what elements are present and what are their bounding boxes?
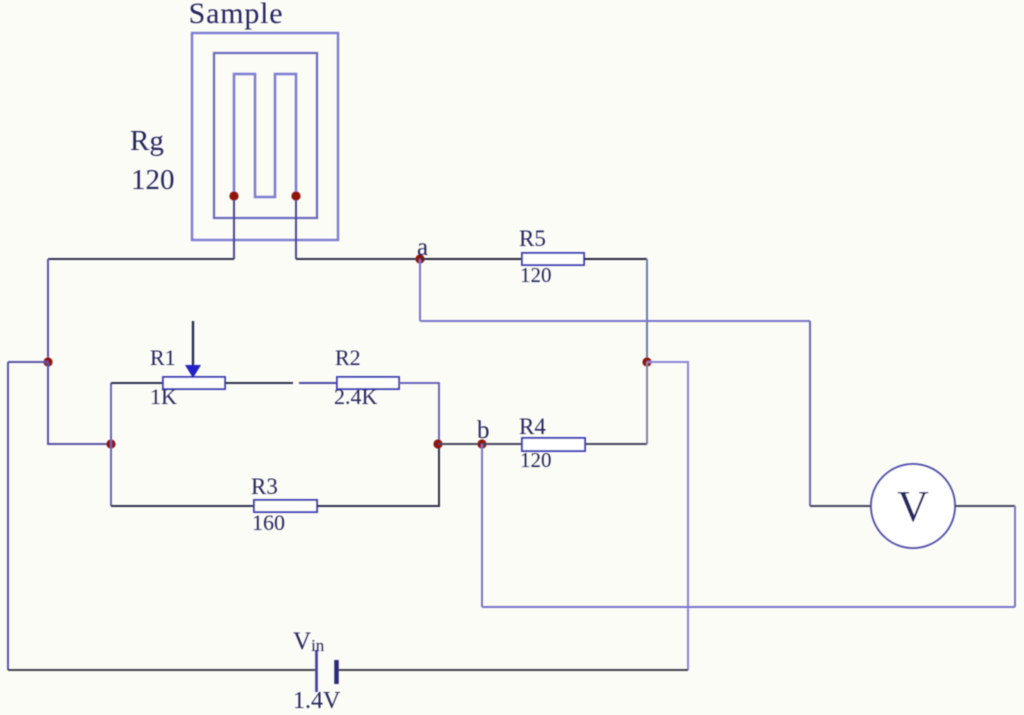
wire voltmeter branch down — [809, 321, 811, 506]
wire bridge right node to node b — [438, 443, 482, 445]
wire far-left rail down to battery — [7, 362, 9, 670]
wire bridge lower-left to R3 — [111, 505, 254, 507]
wire junction down to bridge left node — [48, 362, 111, 444]
svg-text:1K: 1K — [150, 384, 177, 409]
svg-text:120: 120 — [520, 263, 552, 287]
svg-text:Sample: Sample — [189, 0, 284, 30]
wire voltmeter right down — [1014, 506, 1016, 607]
wire to R1 left — [111, 382, 163, 384]
wire R3 right up to bridge right node — [317, 448, 439, 506]
wire junction to far-left rail — [8, 361, 48, 363]
resistor R5 — [522, 253, 584, 265]
wire left rail down to junction — [47, 259, 49, 362]
resistor R3 — [254, 500, 317, 512]
resistor R4 — [522, 438, 585, 451]
wire gauge left terminal down — [233, 200, 235, 259]
wire R1 to R2 — [225, 382, 293, 384]
svg-text:V: V — [897, 482, 929, 531]
node a junction — [415, 254, 424, 263]
strain gauge Rg serpentine — [234, 74, 296, 197]
node b junction — [477, 439, 486, 448]
wire junction to battery riser — [647, 362, 688, 670]
bridge right node junction — [433, 439, 442, 448]
wire gauge left to left rail — [48, 258, 234, 260]
gauge terminal junction left — [229, 191, 238, 200]
wiper arrow head R1 — [185, 365, 201, 378]
battery Vin negative plate — [334, 660, 339, 684]
wire gauge right to node a — [296, 258, 420, 260]
wire node b to R4 — [482, 443, 522, 445]
wire node b down — [481, 444, 483, 607]
resistor R2 — [337, 377, 399, 389]
wire R1 to R2 second segment — [299, 382, 337, 384]
wire R2 right to bridge right vertical — [399, 383, 439, 444]
svg-text:120: 120 — [131, 164, 175, 196]
svg-text:R2: R2 — [335, 345, 361, 370]
bridge left node junction — [106, 439, 115, 448]
svg-text:R3: R3 — [251, 474, 278, 499]
wire R4 right to right rail — [585, 443, 647, 445]
right rail junction — [642, 357, 651, 366]
wiper arrow shaft R1 — [192, 321, 194, 367]
svg-text:a: a — [417, 234, 428, 261]
svg-text:160: 160 — [252, 510, 285, 535]
svg-text:R5: R5 — [519, 226, 546, 251]
battery Vin positive plate — [315, 650, 318, 692]
wire node a across to voltmeter branch — [420, 320, 810, 322]
wire R5 right — [584, 258, 647, 260]
svg-text:R1: R1 — [150, 345, 176, 370]
potentiometer R1 — [163, 377, 225, 389]
wire to voltmeter left terminal — [810, 505, 871, 507]
svg-text:2.4K: 2.4K — [334, 384, 378, 409]
wire node a to R5 — [420, 258, 522, 260]
svg-text:b: b — [477, 417, 490, 444]
sample inner box — [214, 53, 317, 218]
svg-text:Rg: Rg — [130, 125, 164, 157]
wire return to node b — [482, 606, 1015, 608]
wire right rail lower vertical — [646, 362, 648, 444]
wire node a down — [419, 259, 421, 321]
wire battery left — [8, 669, 315, 671]
wire right rail upper vertical — [646, 259, 648, 362]
sample outer box — [192, 33, 338, 240]
wire battery right — [338, 669, 688, 671]
wire voltmeter right terminal — [955, 505, 1015, 507]
junction left rail — [43, 357, 52, 366]
svg-text:120: 120 — [520, 448, 552, 472]
svg-text:R4: R4 — [519, 414, 546, 439]
wire bridge left vertical — [110, 383, 112, 506]
wire gauge right terminal down — [295, 200, 297, 259]
voltmeter V — [871, 464, 955, 548]
svg-text:1.4V: 1.4V — [293, 688, 341, 714]
gauge terminal junction right — [291, 191, 300, 200]
